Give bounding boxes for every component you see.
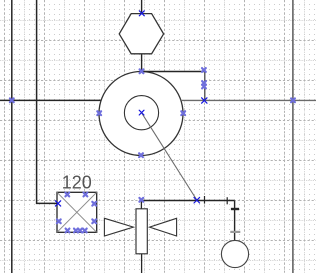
wire junction down to circle <box>234 201 236 241</box>
indicator circle bottom right <box>221 240 248 267</box>
connection X marks (plain blue) <box>55 11 207 206</box>
fan U1 inner circle <box>124 96 158 130</box>
wire valve to junction horizontal <box>141 200 234 202</box>
connection point marks on filter box (bold periwinkle X) <box>57 193 96 233</box>
gray tick bar on vertical wire <box>230 231 240 233</box>
valve V1 stem bottom <box>141 254 143 273</box>
wire left horizontal pipe <box>0 99 101 101</box>
valve V1 right triangle <box>150 218 177 236</box>
connection point marks (bold periwinkle X) <box>10 68 295 202</box>
filter box 120 <box>57 192 97 232</box>
wire top connector into hexagon <box>141 0 143 13</box>
hexagon shape <box>119 14 163 54</box>
tick mark 2 on horizontal wire <box>226 197 228 204</box>
fan U1 duct right edge <box>204 72 206 101</box>
wire left vertical line 2 with elbow into box <box>37 0 58 203</box>
tick mark 1 on horizontal wire <box>204 196 206 204</box>
wire duct-wall horizontal pipe (right, gray) <box>181 99 316 101</box>
filter box diagonal 2 <box>57 192 97 232</box>
wire diagonal connector from fan center <box>142 114 197 201</box>
wall line (right vertical) <box>292 0 294 273</box>
fan U1 body circle <box>99 72 183 156</box>
wire hexagon to fan <box>141 54 143 72</box>
filter box diagonal 1 <box>57 192 97 232</box>
fan U1 duct bottom edge <box>180 99 205 101</box>
valve V1 stem top <box>140 201 142 209</box>
svg-text:120: 120 <box>62 173 92 193</box>
fan U1 duct top edge <box>141 71 205 73</box>
tick bar on vertical wire <box>231 208 239 210</box>
valve V1 body rect <box>136 209 147 254</box>
fan U1 duct interior <box>141 72 205 101</box>
wire left vertical line 1 <box>11 0 13 273</box>
valve V1 left triangle <box>104 218 133 236</box>
